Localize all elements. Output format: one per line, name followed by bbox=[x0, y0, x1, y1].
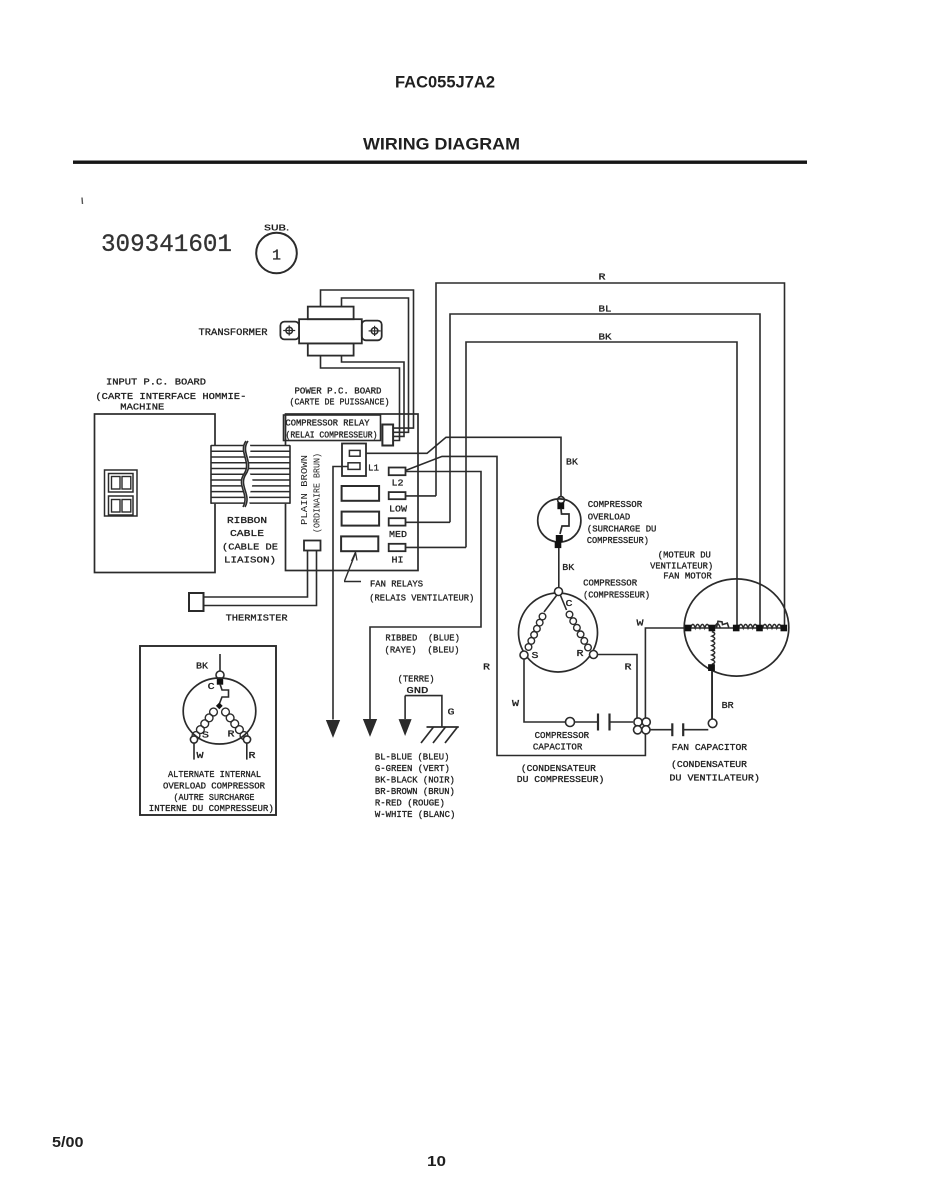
alternate S terminal bbox=[190, 736, 197, 743]
svg-text:COMPRESSOR: COMPRESSOR bbox=[535, 730, 590, 741]
wire HI to BK riser bbox=[406, 546, 467, 548]
gnd arrow bbox=[399, 720, 411, 735]
fan capacitor bbox=[650, 723, 708, 736]
svg-text:(AUTRE SURCHARGE: (AUTRE SURCHARGE bbox=[174, 792, 255, 803]
svg-text:L1: L1 bbox=[368, 463, 379, 474]
fan motor circle bbox=[684, 579, 789, 676]
stray scan tick bbox=[81, 198, 84, 205]
wire R : LOW relay up, across top, down to fan motor bbox=[436, 283, 785, 625]
svg-text:(RAYE) (BLEU): (RAYE) (BLEU) bbox=[385, 645, 460, 656]
svg-text:LOW: LOW bbox=[389, 504, 407, 515]
junction wire nuts bbox=[634, 718, 651, 734]
svg-text:MED: MED bbox=[389, 529, 407, 540]
wire BK : HI relay up, across, down to fan motor bbox=[466, 342, 737, 625]
svg-text:WIRING DIAGRAM: WIRING DIAGRAM bbox=[363, 135, 520, 154]
svg-text:HI: HI bbox=[392, 555, 404, 566]
svg-text:BK: BK bbox=[599, 332, 612, 343]
wire transformer top inner to relay bbox=[342, 298, 409, 432]
alternate center junction bbox=[216, 703, 223, 710]
fan motor winding taps bbox=[685, 625, 787, 632]
plain brown wire from L1 pin down bbox=[333, 467, 348, 720]
svg-text:ALTERNATE INTERNAL: ALTERNATE INTERNAL bbox=[168, 769, 261, 780]
svg-text:C: C bbox=[208, 681, 216, 692]
svg-text:LIAISON): LIAISON) bbox=[224, 555, 276, 566]
wire start winding down bbox=[711, 671, 713, 719]
svg-text:R: R bbox=[599, 272, 606, 283]
svg-text:R: R bbox=[625, 662, 632, 673]
wire from L2 diagonal to R return line bbox=[406, 456, 646, 755]
revision circle 1 bbox=[256, 233, 297, 274]
svg-text:MACHINE: MACHINE bbox=[120, 402, 164, 413]
svg-text:(CARTE INTERFACE HOMMIE-: (CARTE INTERFACE HOMMIE- bbox=[95, 391, 246, 402]
svg-text:BR: BR bbox=[722, 700, 734, 711]
compressor S terminal bbox=[520, 651, 528, 659]
alternate windings bbox=[192, 708, 248, 739]
thermistor wire pair bbox=[204, 551, 308, 598]
svg-text:R: R bbox=[577, 648, 584, 659]
svg-text:BK: BK bbox=[196, 661, 208, 672]
svg-text:TRANSFORMER: TRANSFORMER bbox=[199, 328, 268, 339]
svg-text:BK: BK bbox=[566, 457, 578, 468]
ribbed blue arrow bbox=[364, 720, 377, 736]
alternate overload top wire bbox=[219, 654, 221, 671]
svg-text:BK: BK bbox=[562, 562, 574, 573]
wire MED to BL riser bbox=[406, 521, 451, 523]
alternate overload box bbox=[140, 646, 276, 815]
svg-text:1: 1 bbox=[272, 248, 281, 265]
svg-text:309341601: 309341601 bbox=[101, 230, 232, 259]
wire R from compressor R terminal to junction bbox=[598, 655, 638, 719]
alternate overload C terminal bbox=[216, 671, 224, 679]
svg-text:COMPRESSOR RELAY: COMPRESSOR RELAY bbox=[286, 418, 370, 429]
svg-text:S: S bbox=[202, 730, 210, 741]
svg-text:S: S bbox=[532, 650, 539, 661]
svg-text:R: R bbox=[483, 662, 490, 673]
svg-text:DU VENTILATEUR): DU VENTILATEUR) bbox=[669, 773, 760, 784]
svg-text:10: 10 bbox=[427, 1154, 446, 1170]
alternate R terminal bbox=[243, 736, 250, 743]
svg-text:(ORDINAIRE BRUN): (ORDINAIRE BRUN) bbox=[312, 453, 323, 533]
wire W drop from fan motor feed to junction bbox=[645, 628, 687, 718]
svg-text:(RELAI COMPRESSEUR): (RELAI COMPRESSEUR) bbox=[286, 430, 378, 441]
chassis ground symbol bbox=[421, 727, 459, 743]
heading underline rule bbox=[73, 161, 807, 164]
gnd bracket wire bbox=[405, 696, 442, 727]
alternate compressor circle bbox=[183, 678, 256, 744]
gnd arrow stem bbox=[404, 696, 406, 719]
terminal LOW bbox=[389, 492, 406, 499]
svg-text:C: C bbox=[566, 598, 573, 609]
svg-text:(TERRE): (TERRE) bbox=[398, 674, 435, 685]
svg-text:BR-BROWN (BRUN): BR-BROWN (BRUN) bbox=[375, 786, 455, 797]
compressor overload terminal top bbox=[558, 497, 565, 504]
svg-text:(CONDENSATEUR: (CONDENSATEUR bbox=[521, 763, 596, 774]
svg-text:(CARTE DE PUISSANCE): (CARTE DE PUISSANCE) bbox=[290, 397, 390, 408]
compressor windings bbox=[525, 596, 591, 651]
compressor motor circle bbox=[519, 593, 598, 672]
fan relays pointer arrow bbox=[344, 552, 361, 582]
svg-text:OVERLOAD COMPRESSOR: OVERLOAD COMPRESSOR bbox=[163, 780, 265, 791]
svg-text:FAN CAPACITOR: FAN CAPACITOR bbox=[672, 742, 748, 753]
input PC board outline bbox=[95, 414, 216, 573]
svg-text:COMPRESSOR: COMPRESSOR bbox=[588, 499, 643, 510]
svg-text:THERMISTER: THERMISTER bbox=[226, 613, 288, 624]
svg-text:(COMPRESSEUR): (COMPRESSEUR) bbox=[583, 590, 650, 601]
svg-text:CAPACITOR: CAPACITOR bbox=[533, 742, 583, 753]
transformer right mounting screw bbox=[369, 326, 381, 336]
fan relay block 3 bbox=[341, 536, 378, 551]
fan capacitor terminal bbox=[708, 719, 717, 728]
wire color legend bbox=[375, 752, 456, 821]
svg-text:INTERNE DU COMPRESSEUR): INTERNE DU COMPRESSEUR) bbox=[149, 803, 274, 814]
svg-text:SUB.: SUB. bbox=[264, 224, 289, 233]
svg-text:COMPRESSEUR): COMPRESSEUR) bbox=[587, 535, 649, 546]
svg-text:L2: L2 bbox=[392, 478, 404, 489]
svg-text:INPUT P.C. BOARD: INPUT P.C. BOARD bbox=[106, 377, 206, 388]
svg-text:GND: GND bbox=[406, 685, 429, 696]
compressor overload body bbox=[538, 499, 581, 548]
wire BK from L1 to compressor overload bbox=[366, 437, 561, 496]
svg-text:FAN MOTOR: FAN MOTOR bbox=[663, 571, 712, 582]
transformer left mounting screw bbox=[283, 325, 295, 335]
alternate overload bimetal bbox=[220, 684, 229, 704]
svg-text:R-RED (ROUGE): R-RED (ROUGE) bbox=[375, 798, 445, 809]
svg-text:OVERLOAD: OVERLOAD bbox=[588, 511, 631, 522]
svg-text:COMPRESSOR: COMPRESSOR bbox=[583, 578, 637, 589]
wire BR from fan motor to fan capacitor bbox=[711, 672, 713, 720]
wire W from S to compressor capacitor bbox=[524, 659, 566, 722]
svg-text:(SURCHARGE DU: (SURCHARGE DU bbox=[587, 524, 657, 535]
terminal MED bbox=[389, 518, 406, 525]
svg-text:(CONDENSATEUR: (CONDENSATEUR bbox=[671, 759, 748, 770]
transformer body bbox=[280, 307, 381, 356]
compressor relay label box bbox=[284, 415, 381, 441]
svg-text:W: W bbox=[512, 698, 519, 709]
svg-text:W: W bbox=[197, 750, 205, 761]
svg-text:RIBBED (BLUE): RIBBED (BLUE) bbox=[385, 633, 460, 644]
compressor C terminal bbox=[555, 588, 563, 596]
wire BL : MED relay up, across, down to fan motor bbox=[450, 314, 760, 625]
wire transformer bottom inner to relay bbox=[342, 356, 405, 437]
svg-text:RIBBON: RIBBON bbox=[227, 515, 267, 526]
wire overload to compressor C bbox=[558, 548, 560, 588]
display window on input board bbox=[105, 470, 138, 516]
svg-text:(RELAIS VENTILATEUR): (RELAIS VENTILATEUR) bbox=[369, 593, 474, 604]
svg-text:FAC055J7A2: FAC055J7A2 bbox=[395, 74, 495, 92]
fan motor main winding bbox=[688, 621, 786, 628]
svg-text:W-WHITE (BLANC): W-WHITE (BLANC) bbox=[375, 809, 456, 820]
alternate R lead bbox=[246, 743, 248, 760]
wire from L2 to ribbed blue drop bbox=[370, 472, 481, 720]
svg-text:R: R bbox=[228, 729, 236, 740]
svg-text:BL: BL bbox=[599, 304, 612, 315]
power PC board outline bbox=[286, 414, 419, 571]
compressor relay K1 body bbox=[382, 425, 393, 446]
svg-text:POWER P.C. BOARD: POWER P.C. BOARD bbox=[295, 386, 382, 397]
svg-text:FAN RELAYS: FAN RELAYS bbox=[370, 579, 423, 590]
alternate W lead bbox=[193, 743, 195, 760]
svg-text:BL-BLUE (BLEU): BL-BLUE (BLEU) bbox=[375, 752, 450, 763]
wire transformer top outer to relay bbox=[321, 290, 414, 428]
fan motor start winding bbox=[708, 632, 715, 672]
terminal L2 bbox=[389, 468, 406, 476]
svg-text:W: W bbox=[637, 618, 644, 629]
compressor capacitor bbox=[575, 714, 634, 731]
svg-text:DU COMPRESSEUR): DU COMPRESSEUR) bbox=[517, 774, 605, 785]
svg-text:(CABLE DE: (CABLE DE bbox=[222, 542, 278, 553]
fan relay block 2 bbox=[342, 512, 380, 526]
svg-text:R: R bbox=[249, 750, 257, 761]
svg-text:G-GREEN (VERT): G-GREEN (VERT) bbox=[375, 763, 450, 774]
wire transformer bottom outer to relay bbox=[321, 356, 400, 441]
svg-text:(MOTEUR DU: (MOTEUR DU bbox=[658, 550, 711, 561]
svg-text:PLAIN BROWN: PLAIN BROWN bbox=[299, 455, 310, 525]
terminal HI bbox=[389, 544, 406, 551]
compressor capacitor terminal bbox=[566, 718, 575, 727]
ribbon cable bbox=[211, 441, 290, 507]
relay L1 block bbox=[342, 444, 366, 477]
fan relay block 1 bbox=[342, 486, 380, 501]
thermistor body bbox=[189, 593, 204, 611]
svg-text:5/00: 5/00 bbox=[52, 1135, 84, 1151]
plain brown arrow bbox=[327, 721, 340, 737]
svg-text:G: G bbox=[448, 707, 455, 718]
plain brown connector on power board bbox=[304, 541, 321, 551]
svg-text:BK-BLACK (NOIR): BK-BLACK (NOIR) bbox=[375, 775, 455, 786]
compressor R terminal bbox=[590, 651, 598, 659]
svg-text:CABLE: CABLE bbox=[230, 528, 264, 539]
wire LOW to R riser bbox=[406, 495, 437, 497]
